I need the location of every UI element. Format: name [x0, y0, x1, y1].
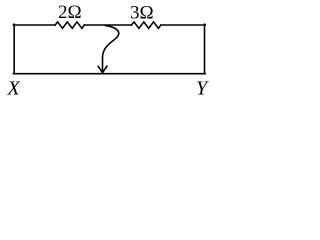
wire left side (X to top-left corner) [13, 24, 15, 73]
svg-text:2Ω: 2Ω [58, 2, 82, 23]
resistor R2 3&#937; zigzag [132, 22, 161, 28]
tap arrow head [98, 66, 107, 72]
wire top-left segment [13, 24, 55, 26]
svg-text:X: X [7, 77, 21, 99]
svg-text:3Ω: 3Ω [130, 3, 154, 24]
svg-text:Y: Y [196, 77, 209, 99]
wire top-middle segment [84, 24, 131, 26]
wire top-right segment [161, 24, 205, 26]
wire bottom (X to Y) [13, 73, 205, 75]
tap arrow curve from top wire junction [103, 26, 119, 72]
resistor R1 2&#937; zigzag [55, 22, 84, 28]
wire right side (top-right corner to Y) [204, 24, 206, 73]
